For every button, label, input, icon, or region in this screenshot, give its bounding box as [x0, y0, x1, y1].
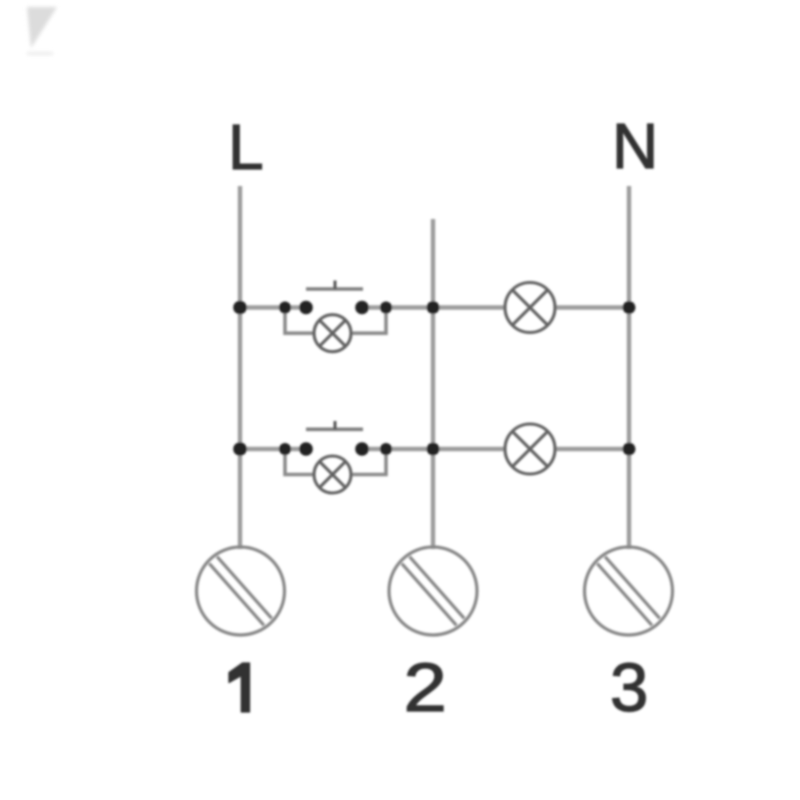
wire rail1 mid segment: [362, 305, 506, 309]
indicator lamp E2 parallel branch wire: [285, 449, 314, 475]
junction node rail2/E2 left: [279, 443, 291, 455]
junction node rail2/E2 right: [380, 443, 392, 455]
wire rail1 right segment: [555, 305, 630, 309]
lamp H1: [505, 283, 555, 333]
wire rail1 left segment: [240, 305, 306, 309]
wire L vertical: [238, 186, 242, 549]
junction node N/rail1: [623, 301, 636, 314]
junction node mid/rail2: [427, 443, 440, 456]
junction node L/rail2: [233, 442, 247, 456]
junction node rail1/E1 right: [380, 302, 392, 314]
wire N vertical: [627, 186, 631, 549]
terminal 3: [585, 547, 673, 635]
junction node N/rail2: [623, 443, 636, 456]
terminal 2: [389, 547, 477, 635]
indicator lamp E2: [314, 456, 351, 493]
svg-text:L: L: [228, 111, 264, 183]
junction node mid/rail1: [427, 301, 440, 314]
indicator lamp E1: [314, 315, 351, 352]
wire rail2 left segment: [240, 447, 306, 451]
junction node rail1/E1 left: [279, 302, 291, 314]
svg-text:N: N: [612, 110, 658, 182]
switch S1 push-button actuator bar: [306, 281, 363, 290]
switch S2 push-button actuator bar: [306, 421, 363, 429]
svg-text:3: 3: [610, 649, 648, 726]
wire rail2 mid segment: [362, 447, 506, 451]
wire rail2 right segment: [555, 447, 630, 451]
wire middle vertical: [431, 219, 435, 549]
svg-text:2: 2: [404, 648, 447, 726]
junction node L/rail1: [233, 301, 247, 315]
terminal label 1: [229, 663, 250, 712]
indicator lamp E1 parallel branch wire: [285, 308, 314, 334]
switch S1 right contact dot: [355, 301, 369, 315]
switch S1 left contact dot: [299, 301, 313, 315]
terminal 1: [197, 547, 285, 635]
watermark smudge: [27, 7, 57, 55]
lamp H2: [505, 424, 555, 474]
switch S2 right contact dot: [355, 442, 369, 456]
switch S2 left contact dot: [299, 442, 313, 456]
